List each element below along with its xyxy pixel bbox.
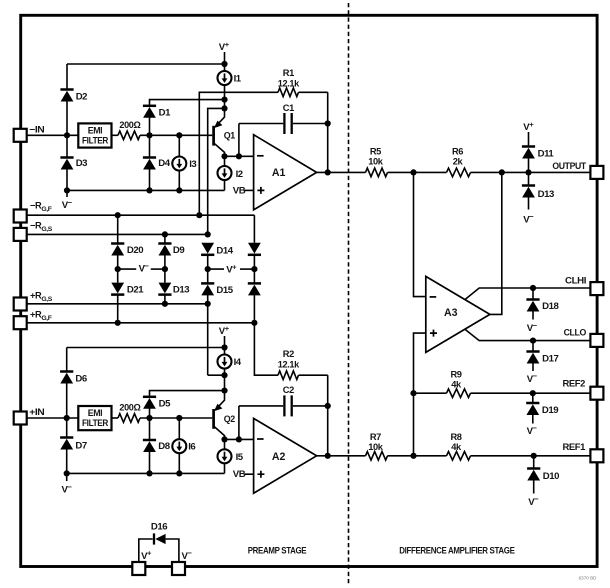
wire: D5 anode to input line: [149, 409, 151, 419]
wire: I2 tail to V- rail: [224, 180, 226, 191]
node: I3 at V- rail: [176, 187, 182, 193]
pin pad REF1: [590, 449, 603, 462]
resistor R5 10k: [366, 168, 388, 177]
wire: A1 output row: [317, 171, 366, 173]
pin pad CLLO: [590, 334, 603, 347]
diode D4: [149, 135, 151, 157]
svg-text:D4: D4: [158, 158, 170, 169]
wire: +RGF rail: [27, 322, 254, 324]
resistor R1 12.1k feedback: [199, 68, 327, 215]
node: +IN / D6 D7 junction: [64, 415, 70, 421]
svg-text:R9: R9: [450, 370, 461, 380]
diode D21: [111, 283, 124, 295]
node: REF divider top: [410, 390, 416, 396]
svg-text:D15: D15: [216, 285, 233, 296]
diode D11: [528, 132, 530, 147]
svg-text:10k: 10k: [368, 442, 384, 452]
pin pad +RGF: [14, 316, 27, 329]
wire: R9 to REF2 pad: [471, 392, 590, 394]
diode D20: [117, 215, 119, 243]
svg-text:D11: D11: [538, 148, 555, 159]
wire: lower cell V- rail: [67, 472, 225, 474]
svg-text:C1: C1: [283, 103, 294, 113]
wire: D2 anode to input line: [66, 101, 68, 135]
node: D10 junction: [531, 453, 537, 459]
wire: emitter sense line to -RGS rail: [208, 108, 225, 234]
node: D15 chain at +RGS rail: [205, 301, 211, 307]
svg-text:Q2: Q2: [224, 414, 235, 425]
svg-text:OUTPUT: OUTPUT: [552, 161, 586, 171]
svg-text:D2: D2: [76, 92, 87, 103]
V- label (lower cell): [66, 473, 68, 481]
svg-text:I3: I3: [189, 159, 196, 170]
wire: CLHI tap from A3: [465, 288, 590, 300]
svg-text:D13: D13: [538, 189, 554, 200]
pin pad -RGF: [14, 210, 27, 223]
wire: I1 to emitter node: [224, 85, 226, 108]
svg-text:R8: R8: [450, 432, 461, 442]
wire: -IN pad to EMI filter: [27, 134, 78, 136]
current source I2: [224, 156, 226, 166]
wire: A3 output leg: [490, 172, 502, 314]
node: D4 at V- rail: [146, 187, 152, 193]
resistor R2 12.1k feedback: [278, 349, 328, 380]
wire: -RGS rail: [27, 233, 208, 235]
diode D8: [149, 418, 151, 440]
svg-text:I2: I2: [236, 169, 243, 180]
node: A3 output feedback junction: [499, 169, 505, 175]
node: output clamp junction: [525, 169, 531, 175]
wire: upper cell V- rail: [67, 189, 225, 191]
wire: A3 plus input leg: [414, 333, 426, 456]
svg-text:I4: I4: [234, 357, 242, 368]
node: D8 tap: [146, 415, 152, 421]
svg-text:D17: D17: [542, 353, 558, 364]
svg-text:A1: A1: [272, 167, 286, 179]
wire: feedback right leg (lower): [327, 375, 329, 456]
svg-text:DIFFERENCE AMPLIFIER STAGE: DIFFERENCE AMPLIFIER STAGE: [399, 545, 515, 555]
node: D9 chain at -RGS rail: [162, 231, 168, 237]
svg-text:D21: D21: [127, 284, 144, 295]
node: Q1 collector / A1 inverting input: [221, 153, 227, 159]
node: D4 tap: [146, 132, 152, 138]
svg-text:D7: D7: [75, 440, 86, 451]
op-amp A3: [426, 276, 490, 352]
diode D13 (RG clamp): [158, 283, 171, 295]
wire: -RGF rail: [27, 214, 254, 216]
svg-text:10k: 10k: [368, 156, 384, 166]
diode (force clamp lower, unnamed): [248, 283, 261, 295]
svg-text:VB: VB: [233, 469, 246, 480]
current source I6: [178, 418, 180, 439]
diode D5: [143, 397, 156, 409]
pin pad OUTPUT: [590, 166, 603, 179]
node: I6 tap: [176, 415, 182, 421]
wire: R7 to R8: [388, 455, 447, 457]
svg-text:I1: I1: [234, 74, 242, 85]
node: D9/D13 midpoint: [164, 256, 166, 283]
resistor 200ohm (upper): [112, 134, 119, 136]
node: A1 output junction: [325, 169, 331, 175]
op-amp A2: [254, 418, 317, 493]
node: D14/D15 midpoint: [207, 255, 209, 284]
node: D20/D21 midpoint: [117, 256, 119, 283]
wire: A2 output row to R7: [317, 455, 366, 457]
wire: D1 cathode link: [150, 100, 225, 106]
node: D8 at V- rail: [146, 470, 152, 476]
diode D13 (output clamp): [528, 172, 530, 185]
node: force clamp midpoint: [253, 255, 255, 284]
svg-text:D20: D20: [127, 245, 143, 256]
capacitor C1: [239, 103, 328, 134]
svg-text:VB: VB: [233, 185, 246, 196]
svg-text:4k: 4k: [451, 442, 462, 452]
svg-text:R6: R6: [452, 146, 463, 156]
wire: collector node to A1 minus input: [225, 155, 254, 157]
pin pad +IN: [14, 412, 27, 425]
wire: V+ to I1: [224, 52, 226, 71]
svg-text:D16: D16: [151, 521, 167, 532]
current source I3: [178, 135, 180, 156]
wire: -RGF rail corner into force clamp chain: [253, 215, 255, 243]
EMI filter block (lower): [78, 406, 111, 430]
svg-text:A2: A2: [272, 451, 286, 463]
node: REF divider bottom: [410, 453, 416, 459]
svg-text:C2: C2: [283, 385, 294, 395]
svg-text:R1: R1: [283, 68, 294, 78]
node: V- rail left end: [64, 187, 70, 193]
V- link between D20 and D9 midpoints: [118, 268, 137, 270]
resistor R6 2k: [447, 168, 471, 177]
diode D3: [66, 135, 68, 157]
node: V- rail left end (lower): [64, 470, 70, 476]
svg-text:D8: D8: [158, 441, 170, 452]
diode D16: [139, 521, 179, 567]
svg-text:12.1k: 12.1k: [278, 360, 300, 370]
svg-text:D10: D10: [543, 471, 559, 482]
svg-text:2k: 2k: [453, 156, 464, 166]
svg-text:FILTER: FILTER: [82, 418, 109, 428]
svg-text:D19: D19: [542, 405, 558, 416]
wire: REF2 row left: [414, 392, 447, 394]
wire: V+ supply rail to D6 column: [67, 347, 225, 349]
pin pad V+: [132, 562, 145, 575]
pin pad V-: [172, 562, 185, 575]
node: sense line at -RGS rail: [205, 231, 211, 237]
svg-text:D9: D9: [173, 245, 184, 256]
diode D6: [66, 348, 68, 372]
svg-text:I5: I5: [236, 452, 244, 463]
diode (force clamp upper, unnamed): [248, 243, 261, 255]
node: D17 junction: [530, 338, 536, 344]
diode D14: [201, 243, 214, 255]
node: I3 tap: [176, 132, 182, 138]
svg-text:−IN: −IN: [29, 124, 45, 134]
node: C2 at minus input wire: [236, 436, 242, 442]
svg-text:R2: R2: [283, 349, 294, 359]
svg-text:D14: D14: [216, 245, 233, 256]
svg-text:D6: D6: [75, 374, 86, 385]
transistor Q2: [214, 391, 235, 440]
node: D21 chain at +RGF rail: [115, 320, 121, 326]
node: emitter sense tap (lower): [221, 372, 227, 378]
svg-text:D1: D1: [159, 107, 171, 118]
wire: +RGF rail leg down to R2: [254, 323, 278, 375]
wire: +RGS rail: [27, 303, 208, 305]
wire: A3 minus input leg: [414, 172, 426, 296]
svg-text:EMI: EMI: [88, 126, 103, 136]
node: R2 leg at +RGF rail: [251, 320, 257, 326]
svg-text:D13: D13: [173, 284, 189, 295]
wire: 200ohm to Q1 base: [140, 134, 212, 136]
wire: R5 to R6: [388, 171, 447, 173]
svg-text:CLHI: CLHI: [565, 275, 586, 285]
svg-text:D3: D3: [76, 158, 87, 169]
V- label (upper cell): [66, 190, 68, 197]
svg-text:CLLO: CLLO: [564, 328, 587, 338]
node: emitter sense tap: [221, 105, 227, 111]
diode D10: [533, 456, 535, 469]
svg-text:I6: I6: [188, 442, 195, 453]
wire: D6 anode to input line: [66, 383, 68, 418]
diode D15: [201, 283, 214, 295]
svg-text:EMI: EMI: [88, 408, 103, 418]
wire: C2 tap down to A2 minus node: [238, 406, 240, 440]
resistor R7 10k: [366, 452, 388, 461]
node: C1 right junction: [325, 120, 331, 126]
pin pad REF2: [590, 387, 603, 400]
diode D2: [66, 64, 68, 90]
diode D17: [532, 341, 534, 352]
current source I4: [218, 355, 232, 369]
svg-text:PREAMP STAGE: PREAMP STAGE: [248, 545, 307, 555]
node: -IN / D2 D3 junction: [64, 132, 70, 138]
node: V+ rail junction: [221, 61, 227, 67]
wire: D1 anode to input line: [149, 118, 151, 136]
wire: I4 to emitter node: [224, 368, 226, 390]
current source I1: [218, 71, 232, 85]
node: D5 clamp tap: [221, 388, 227, 394]
node: R1 at -RGF rail: [196, 212, 202, 218]
svg-text:4k: 4k: [451, 380, 462, 390]
wire: V+ supply rail to D2 column: [67, 63, 225, 65]
pin pad CLHI: [590, 282, 603, 295]
diode D9: [164, 234, 166, 243]
V+ link between D14 and unnamed chain midpoints: [208, 268, 224, 270]
svg-text:FILTER: FILTER: [82, 135, 109, 145]
svg-text:Q1: Q1: [224, 131, 236, 142]
wire: R6 to OUTPUT pad: [471, 171, 590, 173]
wire: +IN pad to EMI filter: [27, 417, 78, 419]
node: A3 minus node: [410, 169, 416, 175]
node: V+ rail junction (lower): [221, 344, 227, 350]
svg-text:200Ω: 200Ω: [119, 120, 141, 130]
svg-text:REF2: REF2: [563, 378, 586, 388]
svg-text:R7: R7: [370, 432, 381, 442]
svg-text:200Ω: 200Ω: [119, 402, 141, 412]
svg-text:12.1k: 12.1k: [278, 78, 300, 88]
svg-text:D18: D18: [542, 301, 559, 312]
node: C1 at minus input wire: [236, 153, 242, 159]
pin pad -IN: [14, 129, 27, 142]
diode D18: [532, 288, 534, 300]
wire: R8 to REF1 pad: [471, 455, 590, 457]
node: I6 at V- rail: [176, 470, 182, 476]
wire: sense line continuation to Q2 emitter: [207, 304, 209, 375]
current source I5: [224, 439, 226, 449]
node: D18 junction: [530, 285, 536, 291]
wire: C1 tap down to A1 minus node: [238, 124, 240, 157]
diode D19: [532, 393, 534, 403]
svg-text:A3: A3: [444, 307, 458, 319]
resistor 200ohm (lower): [112, 417, 119, 419]
stage separator dashed line: [348, 3, 350, 586]
wire: CLLO tap from A3: [465, 329, 590, 340]
resistor R8 4k: [447, 452, 471, 461]
wire: 200ohm to Q2 base: [140, 417, 212, 419]
wire: I5 tail to V- rail: [224, 463, 226, 473]
EMI filter block (upper): [78, 123, 111, 147]
wire: collector node to A2 minus input: [225, 438, 254, 440]
node: Q2 collector / A2 inverting input: [221, 436, 227, 442]
wire: V+ to I4: [224, 336, 226, 355]
node: D1 clamp tap: [221, 97, 227, 103]
svg-text:D5: D5: [159, 399, 171, 410]
diode D7: [66, 418, 68, 438]
pin pad +RGS: [14, 298, 27, 311]
diode D1: [143, 106, 156, 118]
pin pad -RGS: [14, 228, 27, 241]
svg-text:REF1: REF1: [563, 442, 586, 452]
wire: sense link to chain: [208, 374, 225, 376]
capacitor C2: [239, 385, 328, 417]
transistor Q1: [214, 108, 236, 156]
wire: D5 cathode link: [150, 391, 225, 397]
node: D13 chain at +RGS rail: [162, 301, 168, 307]
node: A2 output junction: [325, 453, 331, 459]
wire: feedback right leg: [327, 92, 329, 172]
node: D20 chain at -RGF rail: [115, 212, 121, 218]
node: C2 right junction: [325, 403, 331, 409]
resistor R9 4k: [447, 389, 471, 398]
op-amp A1: [254, 135, 317, 210]
svg-text:+IN: +IN: [29, 407, 45, 417]
svg-text:R5: R5: [370, 146, 381, 156]
node: D19 junction: [530, 390, 536, 396]
svg-text:6370 BD: 6370 BD: [579, 576, 598, 581]
